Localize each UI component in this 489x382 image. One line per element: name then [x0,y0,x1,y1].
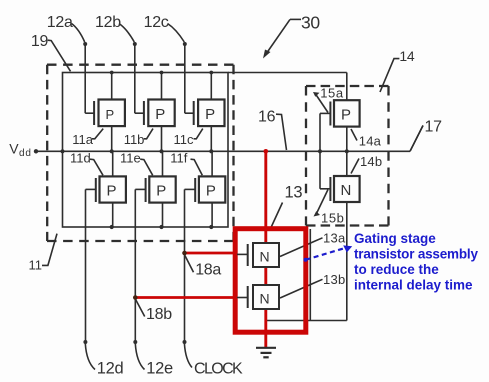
wire red between 13a 13b [264,267,267,286]
leader 11d [90,159,103,175]
node 12c top [183,42,187,46]
leader 11e [140,159,153,175]
wire inverter drain stub [346,127,348,176]
node 12b top [133,42,137,46]
svg-text:Gating stage: Gating stage [354,231,436,246]
svg-text:transistor assembly: transistor assembly [354,246,478,261]
svg-text:18a: 18a [195,261,221,278]
svg-text:14b: 14b [360,154,382,169]
blue arrow [306,248,346,260]
wire input 12d vertical [85,189,87,342]
svg-text:11f: 11f [170,151,187,166]
svg-text:N: N [260,249,270,265]
label 30 arrow [263,19,301,58]
leader 16 [276,114,287,150]
svg-text:15a: 15a [320,85,344,100]
svg-text:12a: 12a [47,14,73,31]
transistor N 14b [320,176,360,202]
wire output 17 diagonal [410,126,423,152]
blue annotation [304,231,479,293]
leader 11f [191,159,203,175]
leader 12c [168,24,185,43]
node CLOCK bottom [183,340,187,344]
svg-text:P: P [155,106,165,123]
wire red 18a [185,252,237,255]
transistor P 11d [86,151,126,229]
wire input 12c [184,44,186,113]
node rail-left junction [60,149,64,153]
leader 17 [410,126,423,152]
transistor P 14a [320,100,360,126]
svg-text:30: 30 [301,13,320,33]
leader 12b [119,24,134,43]
node 12a top [83,42,87,46]
node 12d bottom [83,340,87,344]
dashed box 19 [47,65,234,241]
svg-text:17: 17 [425,118,443,135]
svg-text:11a: 11a [72,132,93,147]
svg-text:11: 11 [29,257,43,272]
node Vdd terminal [34,149,38,153]
wire input 12e vertical [134,189,136,342]
leader 11a [92,129,103,139]
wire Vdd drop to P 14a [346,73,348,101]
svg-text:13: 13 [285,184,303,202]
svg-text:18b: 18b [146,306,172,323]
wire N14b source down [346,202,348,321]
ground [256,348,276,358]
transistor P 11a [85,71,125,154]
wire Vdd mid rail / node 16 rail [36,150,410,152]
svg-text:11d: 11d [70,151,91,166]
wire red below 13b to ground [264,309,267,349]
leader 18b [136,299,145,316]
svg-text:V: V [9,140,19,156]
svg-text:internal delay time: internal delay time [354,277,473,292]
svg-text:14: 14 [399,48,414,64]
leader 12d [85,344,95,370]
blue note text [354,231,478,293]
svg-text:13a: 13a [323,231,346,246]
svg-text:N: N [341,182,352,199]
leader 11b [144,129,153,139]
svg-text:12e: 12e [146,360,173,378]
leader 18a [185,255,194,272]
transistor P 11c [185,71,225,154]
dashed box 14 [306,86,389,226]
svg-text:11e: 11e [120,151,141,166]
red box 13 [235,229,306,333]
node 12e bottom [133,340,137,344]
leader 13a [280,238,323,257]
transistor P 11b [135,71,175,154]
leader 11 [42,234,57,266]
wire bottom horizontal to gating stage [266,320,347,322]
transistor N 13a [237,243,279,267]
svg-text:19: 19 [31,33,49,50]
node 18a junction [182,251,187,256]
wire Vdd top rail extension to inverter [228,72,347,74]
node gate-rail junction [318,149,322,153]
leader CLOCK [184,344,192,368]
svg-text:to reduce the: to reduce the [354,262,439,277]
leader 13 [271,203,283,228]
leader 12e [135,344,144,370]
wire red node16 drop [264,151,267,243]
leader 15b [314,190,329,217]
svg-text:13b: 13b [323,272,346,287]
leader 11c [194,129,203,139]
svg-text:15b: 15b [321,210,345,225]
svg-text:12d: 12d [97,360,124,378]
svg-text:P: P [107,183,117,200]
svg-text:dd: dd [19,148,32,159]
Vdd supply inner box [63,73,229,228]
node red rail junction [264,149,269,154]
wire inverter gate vertical [319,113,321,188]
transistor P 11f [185,151,226,229]
svg-text:P: P [106,107,115,122]
svg-text:12b: 12b [95,14,121,31]
svg-text:14a: 14a [359,133,382,148]
svg-text:11c: 11c [174,132,194,147]
node drain-rail junction [345,149,349,153]
wire CLOCK vertical [184,189,186,342]
leader 19 [48,40,71,71]
svg-text:P: P [156,183,166,200]
transistor P 11e [135,151,175,229]
wire input 12a [84,44,86,113]
transistor N 13b [237,285,279,309]
svg-text:N: N [260,291,270,307]
leader 14a [351,129,357,141]
node 18b junction [133,295,138,300]
svg-text:11b: 11b [124,132,145,147]
wire red 18b [135,296,236,299]
svg-text:P: P [205,106,215,123]
svg-text:12c: 12c [144,14,169,31]
red gating stage overlay [135,149,305,348]
gating stage black parts [133,243,279,357]
svg-text:P: P [206,183,216,200]
svg-text:16: 16 [258,108,276,125]
leader 12a [72,24,85,43]
wire input 12b [134,44,136,113]
wire gating stage right vertical [309,229,311,321]
leader 14b [351,159,359,174]
leader 13b [280,279,323,298]
leader 15a [313,92,328,113]
leader 14 [380,59,399,92]
svg-text:P: P [341,107,351,124]
svg-text:CLOCK: CLOCK [194,361,243,378]
